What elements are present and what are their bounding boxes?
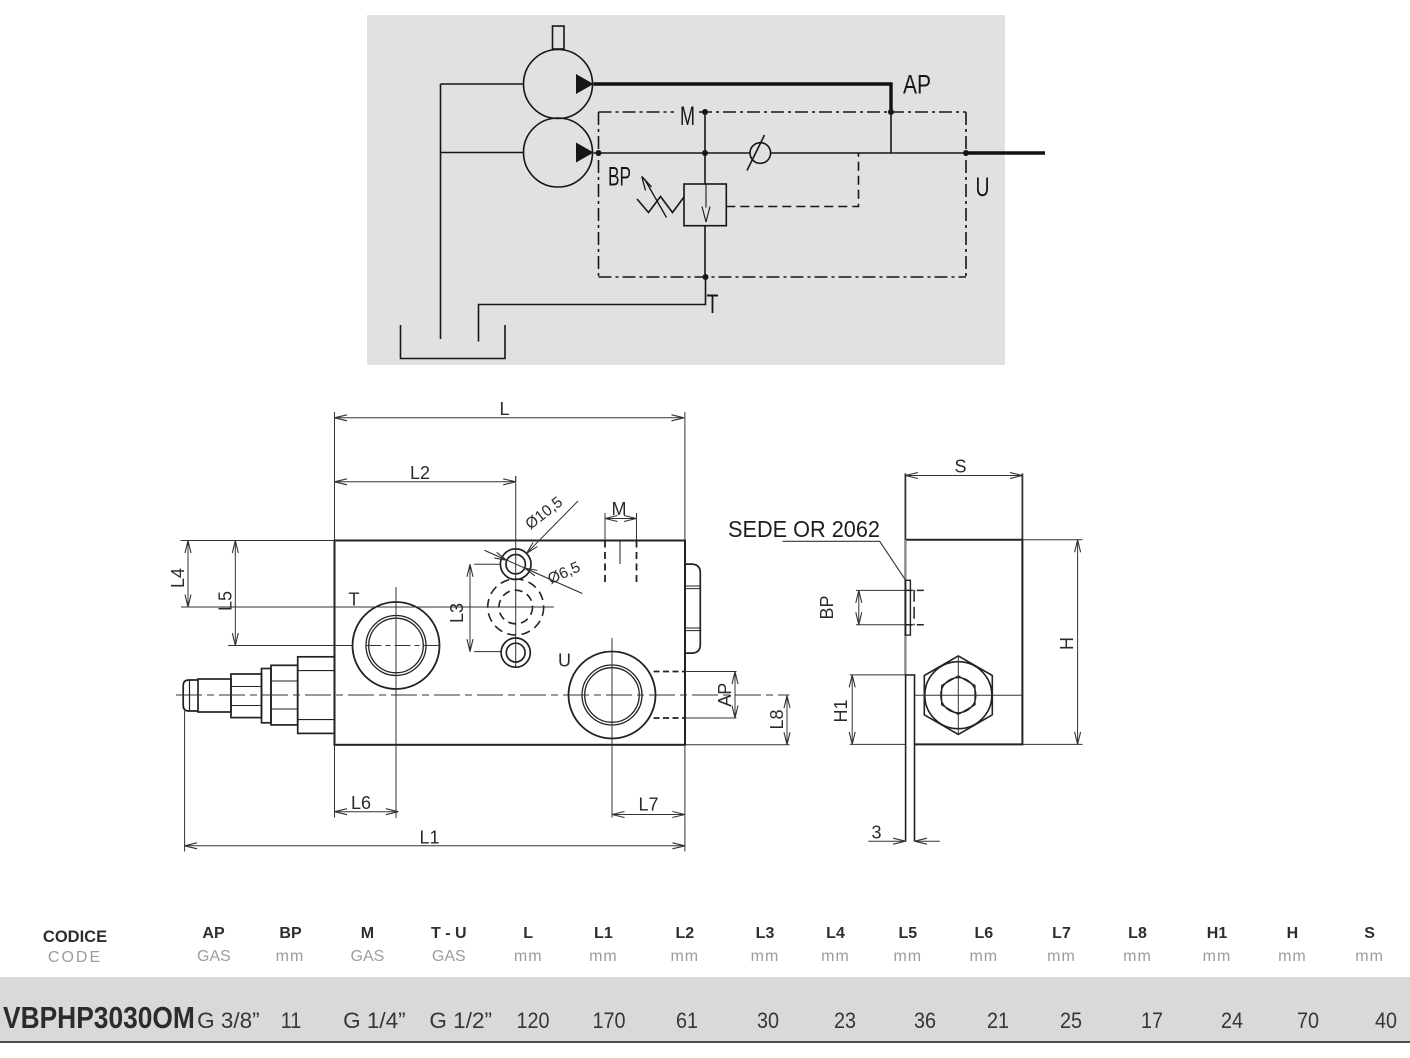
wire AP high pressure line (thick) (594, 84, 892, 112)
wire AP to main line (890, 112, 892, 153)
wire main line to relief valve (704, 153, 706, 184)
side body outline (905, 540, 1022, 745)
T port centerlines (366, 587, 441, 818)
table headers (43, 928, 107, 947)
cartridge hex large (298, 657, 335, 734)
svg-text:S: S (954, 457, 966, 477)
svg-text:L4: L4 (168, 568, 188, 588)
mounting plate (edge view) (906, 675, 915, 841)
AP hidden hole lines (right) (654, 672, 686, 719)
label AP (903, 70, 931, 100)
node T (703, 274, 709, 280)
svg-text:L5: L5 (216, 591, 236, 611)
svg-text:M: M (680, 101, 695, 131)
svg-text:L8: L8 (767, 709, 787, 729)
SEDE OR 2062 leader (783, 541, 907, 581)
dimension L3 (447, 564, 501, 651)
svg-text:Ø10,5: Ø10,5 (522, 494, 566, 533)
svg-text:L: L (499, 399, 509, 419)
pump P2 (524, 118, 594, 187)
wire main line P2 to check valve (594, 152, 751, 154)
dimension H (1022, 540, 1082, 745)
node pump inlet (596, 150, 602, 156)
dimension 3 (plate thickness) (868, 823, 940, 843)
wire pump suction lines (441, 84, 524, 339)
BP seat boss (SEDE OR 2062) (905, 580, 910, 635)
tank (401, 325, 506, 359)
relief adjust screw tip (183, 680, 198, 711)
mounting hole bottom (501, 638, 530, 667)
hex nut centerlines (915, 656, 1023, 735)
lock nut (231, 674, 262, 718)
dimension L8 (685, 696, 790, 745)
dia 6.5 dimension diagonal (485, 550, 583, 593)
valve body outline (335, 541, 686, 745)
node AP (888, 109, 894, 115)
svg-text:L3: L3 (447, 603, 467, 623)
wire T return to tank (479, 277, 706, 342)
svg-text:3: 3 (872, 823, 882, 843)
wire relief valve to T (704, 226, 706, 277)
node U (963, 150, 969, 156)
label dia 6,5 (545, 559, 583, 588)
M port hidden lines (top) (605, 541, 637, 583)
svg-text:BP: BP (608, 162, 631, 192)
wire U outlet (thick) (966, 151, 1045, 154)
relief valve RV1 (684, 184, 726, 226)
svg-text:Ø6,5: Ø6,5 (545, 559, 583, 588)
pump P1 (524, 50, 594, 119)
dimension S (905, 457, 1022, 540)
collar washer (262, 669, 272, 723)
screw stem (198, 679, 231, 712)
svg-text:SEDE OR 2062: SEDE OR 2062 (728, 516, 880, 542)
node M (702, 109, 708, 115)
M port hex boss (right side) (685, 564, 700, 653)
BP hole horizontal centerline / L4 extension (181, 606, 554, 608)
dia 10.5 leader (527, 501, 579, 553)
valve body boundary (dash-dot box) (599, 112, 967, 277)
svg-text:L6: L6 (351, 793, 371, 813)
dimension L2 (335, 463, 516, 483)
dimension L1 (185, 711, 685, 852)
svg-text:L1: L1 (419, 828, 439, 848)
label T port (349, 590, 360, 610)
wire M gauge port drop (704, 112, 706, 153)
pilot line (dashed) (726, 153, 858, 207)
label SEDE OR 2062 (728, 516, 880, 542)
svg-text:H: H (1057, 637, 1077, 650)
main axis centerline (176, 694, 790, 696)
label U (976, 172, 990, 202)
dimension M (605, 499, 637, 541)
check valve CV1 (747, 135, 771, 171)
cartridge hex nut (side view) (924, 656, 992, 735)
U port vertical centerline (611, 638, 613, 818)
T port circles (353, 602, 440, 689)
table data band (0, 977, 1410, 1043)
relief valve spring (637, 197, 684, 213)
svg-text:U: U (558, 651, 571, 671)
dimension BP (817, 590, 905, 624)
table data row (3, 1000, 195, 1036)
dimension L6 (335, 745, 399, 818)
BP hidden hole (dashed circles) (488, 579, 544, 635)
label T (707, 289, 719, 319)
svg-text:H1: H1 (831, 699, 851, 722)
dimension L5 (216, 541, 353, 646)
label U port (558, 651, 571, 671)
svg-text:AP: AP (903, 70, 931, 100)
dimension L (335, 399, 685, 541)
schematic gray background (367, 15, 1005, 365)
svg-text:L2: L2 (410, 463, 430, 483)
dimension L4 (168, 541, 335, 608)
dimension L7 (612, 745, 685, 852)
pump P1 drive shaft (553, 26, 565, 49)
relief valve adjustment arrow (642, 177, 667, 218)
svg-text:U: U (976, 172, 990, 202)
wire check valve to U (771, 152, 967, 154)
svg-text:AP: AP (715, 683, 735, 707)
BP port hidden lines (906, 590, 927, 626)
svg-text:T: T (707, 289, 719, 319)
svg-text:M: M (612, 499, 627, 519)
svg-text:L7: L7 (638, 795, 658, 815)
label M (680, 101, 695, 131)
dimension AP (685, 672, 737, 719)
dimension H1 (831, 675, 915, 745)
mounting hole centerline vertical (515, 476, 517, 668)
mounting hole top (dia 10.5) (500, 549, 531, 580)
node relief junction (702, 150, 708, 156)
label BP (608, 162, 631, 192)
label dia 10,5 (522, 494, 566, 533)
cartridge hex small (271, 665, 298, 725)
U port circles (569, 652, 656, 739)
svg-text:BP: BP (817, 595, 837, 619)
